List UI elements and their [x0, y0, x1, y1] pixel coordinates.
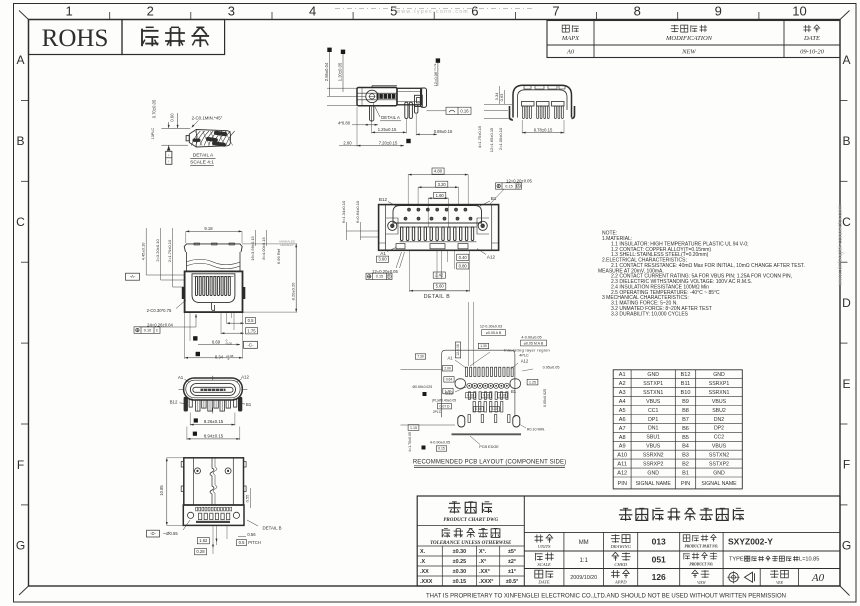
svg-text:PRODUCT CHART DWG: PRODUCT CHART DWG	[443, 518, 498, 523]
svg-text:A1: A1	[380, 251, 386, 256]
tolerance table header	[442, 534, 444, 537]
rear view main body	[185, 271, 243, 312]
svg-text:DATE: DATE	[537, 580, 550, 585]
mating face inner side pins	[189, 399, 192, 407]
top view screw holes	[195, 468, 201, 474]
svg-text:13PLC: 13PLC	[151, 127, 155, 139]
svg-text:9: 9	[715, 4, 722, 19]
dimension 2.42 boxed	[433, 272, 445, 278]
dimension 0.5 PITCH boxed	[237, 540, 247, 546]
detail B bottom strip windows	[396, 244, 405, 249]
svg-text:.XXX: .XXX	[420, 579, 433, 585]
svg-text:±5°: ±5°	[508, 549, 516, 555]
ROHS title box	[29, 20, 123, 55]
svg-text:SSRXN2: SSRXN2	[643, 453, 664, 459]
side view rear leg	[415, 105, 418, 113]
mating face outer shell	[184, 378, 243, 400]
top view inner wall lines	[192, 458, 194, 505]
svg-text:2: 2	[147, 4, 154, 19]
svg-text:C: C	[16, 215, 25, 229]
detail B right side wall	[491, 205, 493, 251]
svg-text:.X°: .X°	[479, 559, 486, 565]
svg-text:1.30: 1.30	[480, 344, 487, 348]
svg-text:2=1.00±0.10: 2=1.00±0.10	[498, 127, 503, 150]
svg-text:APPD: APPD	[614, 580, 627, 585]
revision header 日期 DATE	[805, 25, 807, 32]
svg-text:B2: B2	[682, 462, 689, 468]
svg-text:B1: B1	[246, 402, 252, 407]
svg-text:SSTXP2: SSTXP2	[709, 461, 729, 467]
svg-text:10.85: 10.85	[159, 485, 164, 496]
angle method cell 角法	[692, 570, 695, 573]
svg-text:0.50: 0.50	[475, 407, 481, 411]
tails view shell arch	[513, 85, 572, 117]
svg-text:0.05±0.025: 0.05±0.025	[543, 389, 547, 407]
svg-text:DN1: DN1	[648, 426, 658, 432]
svg-text:B9: B9	[682, 399, 689, 405]
svg-text:±0.15: ±0.15	[453, 579, 466, 585]
svg-text:.X: .X	[420, 559, 425, 565]
svg-text:8=4.00±0.15: 8=4.00±0.15	[261, 237, 266, 260]
svg-text:1.75: 1.75	[247, 328, 256, 333]
svg-text:SSTXN1: SSTXN1	[643, 390, 663, 396]
svg-text:A11: A11	[617, 462, 627, 468]
svg-text:B: B	[842, 134, 850, 148]
rear view top cap	[184, 244, 242, 252]
svg-text:8.20±0.20: 8.20±0.20	[291, 282, 296, 301]
top view solder area	[183, 505, 244, 525]
flatness tolerance box 0.10 C	[134, 327, 160, 334]
pcb layout pad row top	[466, 367, 468, 376]
dimension 12=0.06+0.08 vertical	[436, 58, 440, 62]
svg-text:3: 3	[228, 4, 235, 19]
svg-text:2.00: 2.00	[444, 367, 451, 371]
svg-text:0.64: 0.64	[446, 378, 453, 382]
svg-text:-D-: -D-	[150, 531, 156, 536]
rear view bottom hook	[212, 303, 215, 311]
side view middle legs	[405, 102, 408, 118]
svg-text:051: 051	[652, 555, 666, 565]
svg-text:6=1.34±0.10: 6=1.34±0.10	[341, 200, 346, 223]
svg-text:E: E	[842, 377, 850, 391]
svg-text:09-10-20: 09-10-20	[800, 48, 825, 55]
svg-text:G: G	[842, 539, 851, 553]
svg-text:6.99 Ref: 6.99 Ref	[276, 248, 281, 264]
svg-text:GND: GND	[647, 372, 659, 378]
svg-text:A12: A12	[521, 358, 529, 363]
svg-text:TOLERANCE UNLESS OTHERWISE: TOLERANCE UNLESS OTHERWISE	[430, 541, 512, 546]
svg-text:3.3 DURABILITY: 10,000 CYCL: 3.3 DURABILITY: 10,000 CYCLES	[611, 311, 689, 317]
dimension 8.94±0.15 mating face	[193, 432, 197, 436]
svg-text:PITCH: PITCH	[248, 540, 261, 545]
detail B top insert region	[393, 206, 482, 224]
svg-text:⌀0.05 M A B: ⌀0.05 M A B	[524, 341, 544, 345]
dimension 1.60 boxed	[434, 192, 446, 198]
dimension 0.28 boxed	[195, 549, 207, 555]
svg-text:MODIFICATION: MODIFICATION	[665, 35, 713, 42]
svg-text:UNITS: UNITS	[538, 544, 551, 549]
svg-text:NEW: NEW	[681, 48, 696, 55]
mating face tongue	[193, 387, 233, 392]
svg-text:0.30: 0.30	[491, 407, 497, 411]
svg-text:CHKD: CHKD	[614, 562, 627, 567]
svg-text:GND: GND	[647, 470, 659, 476]
detail A datum target box	[167, 146, 171, 150]
svg-text:A12: A12	[617, 471, 627, 477]
pcb layout big oval pads bottom	[458, 416, 465, 428]
svg-text:1.62: 1.62	[199, 538, 208, 543]
dimension 2.56±0.04 vertical	[327, 48, 331, 52]
svg-text:A10: A10	[617, 453, 627, 459]
revision header 目錄 MAPX	[562, 25, 569, 32]
top view pad row small	[196, 507, 198, 511]
mating face centre line ticks	[179, 388, 185, 390]
svg-text:4PLC: 4PLC	[519, 354, 529, 358]
svg-text:2.42: 2.42	[435, 273, 444, 278]
svg-text:VBUS: VBUS	[712, 444, 727, 450]
datum C box with arrow	[244, 341, 258, 348]
rear view side tab right	[243, 287, 246, 299]
svg-text:±1°: ±1°	[508, 569, 516, 575]
svg-text:126: 126	[652, 572, 666, 582]
corner diagonal bottom-left	[19, 586, 29, 595]
svg-text:↑: ↑	[168, 160, 170, 164]
svg-text:CC2: CC2	[714, 435, 724, 441]
svg-text:DRAWING: DRAWING	[609, 544, 631, 549]
svg-text:A1: A1	[447, 356, 453, 361]
svg-text:PIN: PIN	[618, 481, 627, 487]
svg-text:VBUS: VBUS	[646, 399, 661, 405]
row tick marks left margin	[21, 99, 29, 101]
svg-text:SSRXP2: SSRXP2	[643, 461, 664, 467]
svg-text:B10: B10	[681, 390, 691, 396]
svg-text:TYPE C: TYPE C	[729, 557, 749, 563]
svg-text:PRODUCT NO.: PRODUCT NO.	[689, 562, 713, 566]
svg-text:.XX°: .XX°	[479, 569, 490, 575]
svg-text:12=1.65±0.15: 12=1.65±0.15	[489, 127, 494, 152]
date cell 日期 2009/10/20	[535, 570, 543, 578]
svg-text:0.07 D: 0.07 D	[440, 404, 451, 408]
svg-text:-A-: -A-	[130, 274, 136, 279]
datum D with 0.55	[147, 530, 160, 537]
drawing cell 制图 013	[611, 535, 619, 537]
svg-text:4=1.75±0.15: 4=1.75±0.15	[477, 125, 482, 148]
title block grid lines	[524, 531, 840, 533]
pcb layout mid pad rows	[468, 392, 470, 400]
detail A hatched contact	[189, 130, 230, 148]
svg-text:SBU2: SBU2	[712, 408, 726, 414]
detail B contact comb	[400, 226, 477, 228]
svg-text:0.28: 0.28	[196, 549, 205, 554]
svg-text:6.78±0.15: 6.78±0.15	[534, 127, 553, 132]
svg-text:0.5: 0.5	[239, 540, 245, 545]
svg-text:0.15: 0.15	[505, 184, 512, 188]
svg-text:7.20±0.15: 7.20±0.15	[379, 141, 398, 146]
pcb layout oval pads left right	[455, 379, 466, 389]
dimension 8.34 +0.08-0 with square	[196, 352, 200, 356]
svg-text:0.15: 0.15	[376, 275, 383, 279]
svg-text:DP2: DP2	[714, 426, 724, 432]
dimension 1.62 boxed	[197, 538, 209, 544]
pcb dim column left stack	[408, 425, 419, 431]
svg-text:F: F	[17, 458, 24, 472]
svg-text:0.10: 0.10	[144, 328, 151, 332]
dimension 8.26±0.15 mating face	[194, 418, 198, 422]
svg-text:12=0.06⁺⁰⋅⁰⁸: 12=0.06⁺⁰⋅⁰⁸	[433, 63, 438, 86]
svg-text:6: 6	[471, 4, 478, 19]
svg-text:A1: A1	[178, 375, 184, 380]
dimension 1.75 boxed right	[246, 328, 258, 334]
svg-text:MAPX: MAPX	[561, 35, 580, 42]
svg-text:A5: A5	[619, 408, 626, 414]
scale cell 比例 1:1	[535, 553, 537, 561]
svg-text:D: D	[842, 296, 851, 310]
dimension 5.60 boxed	[434, 283, 446, 289]
top view side notches	[181, 462, 184, 468]
svg-text:B1: B1	[682, 471, 689, 477]
svg-text:4=1.70±0.05: 4=1.70±0.05	[408, 432, 412, 452]
svg-text:A1: A1	[619, 372, 626, 378]
side view shell step top	[372, 85, 397, 87]
company name 步步兴电子有限公司	[621, 516, 623, 520]
svg-text:0.50: 0.50	[483, 393, 489, 397]
svg-text:1:1: 1:1	[580, 558, 589, 564]
side view front leg	[370, 106, 374, 121]
svg-text:2PLC: 2PLC	[433, 410, 442, 414]
svg-text:B4: B4	[682, 444, 689, 450]
svg-text:SCALE 4:1: SCALE 4:1	[190, 160, 214, 166]
svg-text:±0.25: ±0.25	[453, 559, 466, 565]
svg-text:0.70±0.05: 0.70±0.05	[152, 99, 157, 118]
svg-text:DN2: DN2	[714, 417, 724, 423]
pcb footprint outline	[442, 350, 515, 360]
svg-text:RECOMMENDED PCB LAYOUT (COMPON: RECOMMENDED PCB LAYOUT (COMPONENT SIDE)	[413, 459, 567, 465]
svg-text:A8: A8	[619, 435, 626, 441]
svg-text:A4: A4	[619, 399, 626, 405]
svg-text:2.00: 2.00	[343, 141, 352, 146]
svg-text:SSRXP1: SSRXP1	[709, 381, 730, 387]
svg-text:↓: ↓	[168, 153, 170, 157]
dimension 1.20±0.05 vertical	[341, 50, 345, 54]
svg-text:-0.05: -0.05	[225, 342, 232, 346]
svg-text:A0: A0	[566, 48, 575, 55]
mating face side arms	[184, 397, 188, 412]
side view contact band	[377, 94, 398, 99]
svg-text:0.55: 0.55	[245, 494, 250, 503]
flatness symbol box 0.16	[446, 107, 471, 114]
top view end circles	[188, 512, 194, 518]
svg-text:B7: B7	[682, 417, 689, 423]
detail A extension lines	[161, 127, 190, 129]
top view body	[184, 458, 244, 505]
svg-text:DP1: DP1	[648, 417, 658, 423]
svg-text:0.60: 0.60	[170, 113, 175, 122]
top view centre break line	[210, 458, 214, 505]
corner diagonal top-right	[840, 11, 850, 20]
revision table frame	[547, 21, 840, 58]
svg-text:DETAIL A: DETAIL A	[193, 153, 214, 159]
svg-text:4.80: 4.80	[434, 169, 443, 174]
svg-text:B1: B1	[491, 196, 497, 201]
mating face centre tick bottom	[212, 408, 214, 414]
svg-text:X°.: X°.	[479, 549, 487, 555]
svg-text:1.25: 1.25	[529, 380, 536, 384]
dimension 6.69 +0-0.05 with square	[193, 336, 197, 340]
svg-text:DATE: DATE	[803, 35, 820, 42]
svg-text:-C-: -C-	[247, 342, 254, 347]
svg-text:.XX: .XX	[420, 569, 429, 575]
svg-text:SXYZ002-Y: SXYZ002-Y	[728, 537, 773, 547]
rear view neck with break lines	[186, 252, 188, 271]
tails view top slots	[524, 86, 531, 89]
svg-text:A: A	[16, 53, 24, 67]
svg-text:(PL)Ø0.40±0.05: (PL)Ø0.40±0.05	[432, 399, 456, 403]
mating face tongue contact band	[201, 389, 226, 391]
svg-text:SIGNAL NAME: SIGNAL NAME	[636, 481, 672, 487]
pcb dim scattered labels	[455, 342, 460, 358]
dimension 0.40 boxed	[457, 254, 469, 260]
svg-text:B5: B5	[682, 435, 689, 441]
svg-text:5.60: 5.60	[436, 284, 445, 289]
tails view extension lines left	[484, 104, 512, 106]
detail B left side wall	[385, 205, 387, 251]
svg-text:.XXX°: .XXX°	[479, 579, 493, 585]
svg-text:w w w . t y p e c - c o n n .: w w w . t y p e c - c o n n . c o m	[396, 9, 467, 15]
mating face slot opening	[190, 384, 235, 396]
top view pad row large	[199, 513, 202, 519]
svg-text:VBUS: VBUS	[646, 444, 661, 450]
svg-text:2009/10/20: 2009/10/20	[570, 575, 597, 581]
svg-text:A12: A12	[487, 254, 496, 259]
svg-text:3.20: 3.20	[438, 182, 447, 187]
approved cell 核准 126	[613, 570, 615, 578]
svg-text:SSTXP1: SSTXP1	[643, 381, 663, 387]
svg-text:2-C0.1MIN.*45°: 2-C0.1MIN.*45°	[192, 116, 223, 121]
dimension 3.60 boxed below	[377, 256, 389, 262]
svg-text:B6: B6	[682, 426, 689, 432]
svg-text:VBUS: VBUS	[712, 399, 727, 405]
svg-text:1.60: 1.60	[436, 193, 445, 198]
detail A dark knurl bands	[214, 130, 227, 136]
svg-text:±0.5°: ±0.5°	[506, 579, 519, 585]
svg-text:VIEW: VIEW	[697, 581, 707, 585]
svg-text:G: G	[16, 539, 25, 553]
svg-text:GND: GND	[713, 470, 725, 476]
svg-text:1.15: 1.15	[410, 426, 417, 430]
detail B outer housing	[379, 205, 499, 251]
detail B left screw boss	[388, 221, 397, 230]
svg-text:Ø0.65±0.025: Ø0.65±0.025	[413, 385, 433, 389]
svg-text:6=0.64±0.10: 6=0.64±0.10	[355, 200, 360, 223]
svg-text:B12: B12	[681, 372, 691, 378]
side view right extension	[397, 88, 422, 105]
svg-text:1.25±0.15: 1.25±0.15	[378, 127, 397, 132]
svg-text:B12: B12	[379, 197, 388, 202]
svg-text:SSTXN2: SSTXN2	[709, 453, 729, 459]
true position tolerance box bottom left	[366, 273, 392, 279]
svg-text:2=3.20±0.10: 2=3.20±0.10	[155, 239, 160, 262]
part number cell 产品料号 SXYZ002-Y	[683, 535, 690, 542]
svg-text:1.70: 1.70	[445, 389, 452, 393]
svg-text:A3: A3	[619, 390, 626, 396]
svg-text:4-0.90±0.05: 4-0.90±0.05	[521, 336, 541, 340]
customer-drawing title box 客户图	[122, 20, 225, 55]
svg-text:R0.10 MIN.: R0.10 MIN.	[527, 427, 545, 431]
svg-text:B3: B3	[682, 453, 689, 459]
detail A knurl hatching	[191, 131, 200, 146]
svg-text:B12: B12	[170, 400, 178, 405]
svg-text:F: F	[843, 458, 850, 472]
pcb layout hole row	[467, 383, 472, 388]
side view extension lines left	[327, 87, 357, 89]
revision header 设变内容 MODIFICATION	[671, 25, 678, 27]
svg-text:www.xinfenglei-connector.com: www.xinfenglei-connector.com	[838, 205, 844, 287]
svg-text:A6: A6	[619, 417, 626, 423]
datum A box	[126, 273, 140, 280]
svg-text:0.80: 0.80	[459, 263, 468, 268]
svg-text:0.63: 0.63	[499, 93, 504, 102]
svg-text:±0.30: ±0.30	[453, 549, 466, 555]
svg-text:A12: A12	[241, 374, 249, 379]
svg-text:B11: B11	[681, 381, 691, 387]
svg-text:B8: B8	[682, 408, 689, 414]
tolerance table grid	[441, 546, 443, 586]
rear view inner comb	[196, 277, 198, 296]
svg-text:Ø0.55: Ø0.55	[166, 531, 178, 536]
svg-text:0.88±0.15: 0.88±0.15	[434, 129, 453, 134]
pcb dim 1.25 boxed	[527, 379, 538, 385]
svg-text:CC1: CC1	[648, 408, 658, 414]
top view pad dark band	[196, 521, 230, 523]
detail A tip step	[195, 130, 197, 148]
svg-text:PRODUCT PART NO.: PRODUCT PART NO.	[685, 544, 719, 548]
dimension 0.5 boxed right	[246, 317, 256, 323]
side view end cap	[421, 88, 427, 107]
svg-text:10: 10	[792, 4, 806, 19]
svg-text:4*0.80: 4*0.80	[338, 120, 351, 125]
svg-text:16=3.56±0.15: 16=3.56±0.15	[250, 235, 255, 260]
svg-text:DETAIL B: DETAIL B	[262, 526, 281, 531]
svg-text:12-0.06: 12-0.06	[456, 344, 460, 356]
svg-text:0.16: 0.16	[460, 108, 469, 113]
corner diagonal top-left	[19, 11, 29, 20]
svg-text:B: B	[16, 134, 24, 148]
third angle projection symbols	[759, 569, 761, 587]
svg-text:6.69: 6.69	[212, 339, 221, 344]
side view mounting circle	[366, 90, 378, 102]
svg-text:ROHS: ROHS	[42, 25, 109, 52]
detail B top contact dots row 2	[404, 217, 407, 220]
svg-text:VER: VER	[776, 581, 783, 585]
svg-text:0.40: 0.40	[459, 255, 468, 260]
svg-text:L=10.85: L=10.85	[799, 557, 819, 563]
svg-text:A7: A7	[619, 426, 626, 432]
svg-text:⌀0.05 A B: ⌀0.05 A B	[486, 331, 502, 335]
svg-text:SCALE: SCALE	[537, 562, 551, 567]
svg-text:0.30: 0.30	[499, 393, 505, 397]
svg-text:X.: X.	[420, 549, 426, 555]
tails view right hook	[572, 106, 575, 119]
tails view left hook	[510, 106, 514, 120]
title block outer frame	[417, 496, 840, 586]
svg-text:±2°: ±2°	[508, 559, 516, 565]
svg-text:PIN: PIN	[681, 481, 690, 487]
svg-text:7: 7	[552, 4, 559, 19]
svg-text:1: 1	[65, 4, 72, 19]
rear view inner slot	[192, 274, 235, 303]
svg-text:0.30: 0.30	[467, 393, 473, 397]
side view peg box	[415, 95, 423, 106]
